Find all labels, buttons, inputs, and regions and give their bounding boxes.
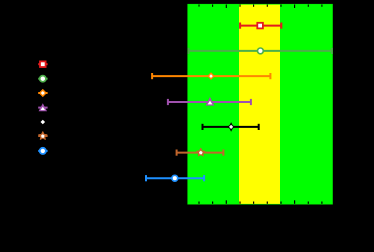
row2 green errorbar	[189, 48, 332, 54]
row3 orange errorbar	[152, 73, 270, 79]
row6 star5 marker	[197, 148, 205, 156]
legend row5 black star4	[38, 121, 47, 123]
row5 star4 marker	[227, 122, 236, 132]
legend row4 purple	[38, 107, 47, 109]
row4 purple errorbar	[168, 99, 251, 105]
legend row7 blue	[38, 150, 47, 152]
axis ticks top	[199, 5, 322, 9]
yellow band	[239, 5, 280, 204]
row3 diamond marker	[208, 73, 214, 79]
row7 blue errorbar	[146, 175, 204, 181]
plot green area	[187, 4, 332, 205]
row4 triangle marker	[206, 97, 215, 106]
row6 brown errorbar	[177, 150, 224, 156]
row5 black errorbar	[203, 124, 259, 130]
legend row2 green	[38, 78, 47, 80]
row7 circle marker	[172, 175, 178, 181]
row1 square marker	[257, 23, 263, 29]
legend row6 brown star5	[38, 135, 47, 137]
legend row1 red	[38, 63, 47, 65]
legend row3 orange	[38, 92, 47, 94]
axis ticks bottom	[199, 200, 322, 204]
row1 red errorbar	[240, 23, 281, 29]
row2 circle marker	[258, 48, 264, 54]
